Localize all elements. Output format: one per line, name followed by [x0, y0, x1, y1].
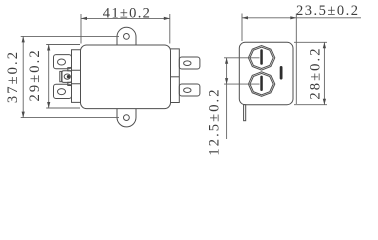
lower socket inner octagon	[250, 73, 273, 94]
ground terminal blade	[62, 71, 72, 83]
dim 23.5 extension lines	[242, 14, 296, 105]
left base lower ear	[68, 82, 72, 85]
upper right spade terminal	[179, 57, 200, 69]
arrow 12.5 top	[225, 58, 228, 64]
mounting leg stub	[244, 105, 246, 121]
dim 29 extension lines	[46, 45, 80, 109]
dim 37 line	[22, 36, 24, 117]
ground terminal hole	[64, 74, 70, 79]
dim 29 line	[48, 45, 50, 109]
svg-text:28±0.2: 28±0.2	[307, 46, 323, 99]
bottom mounting tab	[117, 109, 136, 127]
left view body	[81, 45, 171, 109]
ground slot	[280, 66, 283, 80]
right base division line	[171, 76, 180, 78]
lower left terminal hole	[58, 89, 66, 95]
lower right spade terminal	[179, 84, 200, 96]
svg-text:37±0.2: 37±0.2	[5, 50, 21, 103]
dim 23.5 line	[242, 17, 361, 19]
arrow 37 top	[22, 36, 25, 42]
svg-text:41±0.2: 41±0.2	[103, 5, 151, 21]
arrow 41 right	[164, 17, 170, 20]
dim 41 line	[81, 17, 170, 19]
bottom tab hole	[124, 115, 130, 121]
lower left spade terminal	[54, 84, 72, 98]
right terminal base block	[171, 49, 180, 103]
arrow 28 top	[323, 42, 326, 48]
arrow 28 bottom	[323, 99, 326, 105]
dim 41 extension lines	[81, 14, 170, 44]
svg-text:12.5±0.2: 12.5±0.2	[207, 87, 223, 155]
dim 28 extension lines	[294, 42, 327, 104]
upper right terminal hole	[184, 61, 191, 66]
left base division lines	[72, 70, 81, 84]
arrow 12.5 bottom	[225, 78, 228, 84]
right view inlet face	[239, 42, 293, 104]
dim 12.5 line	[226, 58, 228, 139]
dim 28 line	[323, 42, 325, 104]
dim 37 extension lines	[21, 36, 119, 117]
upper socket inner octagon	[250, 47, 273, 68]
arrow 29 top	[47, 45, 50, 51]
ground terminal tip	[60, 71, 62, 81]
arrow 23.5 right	[290, 16, 296, 19]
top mounting tab	[117, 27, 136, 45]
ground hole dot	[67, 75, 70, 78]
lower socket pin slot	[260, 76, 263, 91]
svg-text:29±0.2: 29±0.2	[27, 48, 43, 101]
upper left terminal hole	[58, 59, 66, 65]
arrow 37 bottom	[22, 112, 25, 118]
upper left spade terminal	[54, 55, 72, 69]
dim 12.5 extension lines	[224, 58, 260, 84]
left terminal base block	[72, 50, 81, 103]
svg-text:23.5±0.2: 23.5±0.2	[296, 3, 359, 19]
lower socket outer octagon	[248, 72, 274, 97]
top tab hole	[124, 34, 130, 40]
upper socket outer octagon	[248, 46, 274, 71]
upper socket pin slot	[260, 49, 263, 64]
lower right terminal hole	[184, 88, 191, 93]
arrow 23.5 left	[242, 16, 248, 19]
left base upper ear	[68, 68, 72, 71]
arrow 41 left	[81, 17, 87, 20]
arrow 29 bottom	[47, 102, 50, 108]
